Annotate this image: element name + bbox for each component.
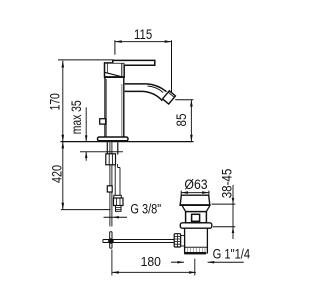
- spout inner curve: [148, 86, 164, 93]
- dimension 180 line: [112, 271, 196, 273]
- drain square hole: [192, 214, 200, 221]
- dimension 170 arrows: [61, 61, 64, 142]
- D63 extension lines: [181, 191, 209, 196]
- extension line faucet axis: [114, 40, 116, 55]
- extension line hose end: [61, 209, 111, 211]
- dimension 115 line: [115, 41, 172, 43]
- dimension 420 line: [62, 142, 64, 210]
- drain tube thread top line: [185, 246, 208, 248]
- spout: [125, 84, 167, 101]
- svg-text:180: 180: [141, 254, 161, 269]
- dimension 85 jog line: [175, 99, 193, 101]
- shank nut: [106, 154, 116, 165]
- dimension D63 arrows: [181, 191, 209, 194]
- pivot dot: [108, 238, 114, 244]
- knurl lines: [174, 234, 180, 247]
- dimension 38-45 line: [232, 185, 234, 239]
- dimension max35 upper arrow: [85, 107, 88, 141]
- G3/8 leader arrow: [113, 216, 119, 219]
- supply washer: [114, 195, 122, 198]
- dimension D63 line: [181, 192, 209, 194]
- G1-1/4 dim right: [208, 261, 244, 263]
- svg-text:max 35: max 35: [69, 100, 84, 134]
- drain block: [186, 212, 207, 223]
- deck bottom line: [80, 151, 123, 153]
- svg-text:85: 85: [174, 114, 189, 127]
- dimension 420 arrows: [61, 142, 64, 210]
- pop-up rod under deck: [110, 142, 112, 226]
- handle base inner line: [106, 64, 108, 74]
- G3/8 nut facets: [117, 198, 121, 206]
- G3/8 threaded tip: [116, 206, 122, 212]
- drain dome lip: [179, 204, 210, 206]
- drain neck: [182, 206, 209, 212]
- svg-text:170: 170: [47, 93, 62, 110]
- drain tube: [185, 228, 208, 253]
- drain tube threads: [188, 247, 206, 252]
- spout aerator face line: [168, 92, 174, 97]
- G3/8 leader: [104, 216, 128, 218]
- dimension 38-45 arrows: [232, 198, 235, 233]
- G1-1/4 dim left: [171, 261, 184, 263]
- faucet lever inner edge: [121, 63, 123, 77]
- 180 left extension: [111, 250, 113, 276]
- dimension 85 arrows: [190, 100, 193, 142]
- svg-text:Ø63: Ø63: [184, 177, 207, 192]
- shank nut facets: [109, 154, 112, 165]
- faucet handle base: [105, 63, 125, 77]
- svg-text:G 1"1/4: G 1"1/4: [213, 247, 251, 262]
- faucet body: [105, 78, 124, 137]
- faucet body inner lines: [107, 79, 122, 137]
- G3/8 nut: [114, 198, 124, 206]
- drain tube bottom cap: [184, 252, 206, 254]
- deck line: [61, 141, 194, 143]
- dimension 85 line: [190, 100, 192, 142]
- dimension 115 arrows: [115, 40, 172, 43]
- faucet lever: [113, 60, 155, 65]
- pop-up rod knob on body: [100, 119, 106, 124]
- pop-up horizontal rod: [103, 240, 174, 243]
- dimension 170 line: [62, 61, 64, 142]
- svg-text:38-45: 38-45: [219, 169, 234, 199]
- 38-45 extension bottom: [213, 226, 235, 228]
- drain flange plate: [180, 223, 212, 228]
- 38-45 extension top: [212, 203, 236, 205]
- faucet handle diagonal: [105, 72, 121, 76]
- dimension 180 arrows: [112, 271, 196, 274]
- dimension max35 lower arrow: [85, 152, 88, 161]
- knob collar: [181, 236, 185, 247]
- svg-text:115: 115: [134, 27, 152, 42]
- shank below deck: [107, 142, 118, 154]
- svg-text:G 3/8": G 3/8": [130, 202, 161, 217]
- faucet body top joint: [104, 76, 125, 78]
- extension line spout tip: [171, 40, 173, 92]
- extension line faucet top: [58, 59, 114, 61]
- spout aerator tip: [163, 91, 176, 104]
- drain center line: [194, 259, 196, 276]
- pop-up rod cross vertical: [110, 232, 112, 248]
- supply pipe: [115, 164, 120, 195]
- knurled knob: [174, 234, 180, 247]
- rod coupling: [107, 186, 112, 192]
- G3/8 thread lines: [116, 208, 122, 210]
- drain dome: [180, 195, 210, 205]
- faucet base flange: [98, 137, 129, 141]
